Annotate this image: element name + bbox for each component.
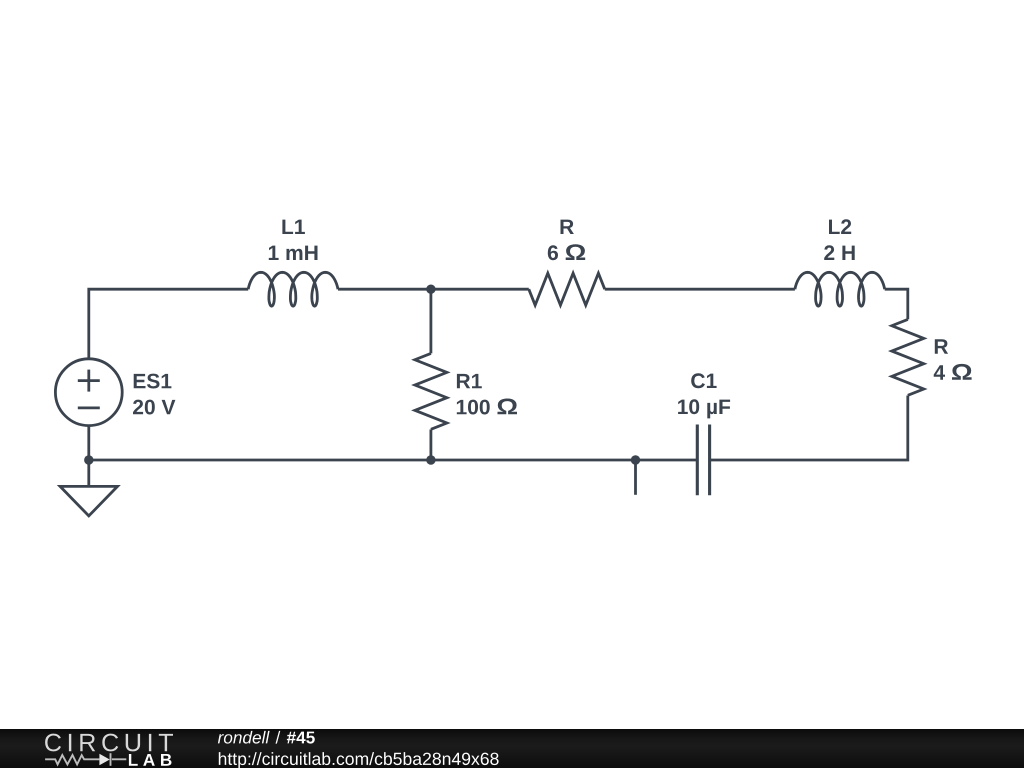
wire R1 to bottom wire <box>429 429 432 460</box>
label ES1 name <box>134 374 172 389</box>
inductor L2 <box>795 272 885 306</box>
label R (4 ohm) value <box>934 364 972 380</box>
wire source to ground <box>87 426 90 487</box>
node B junction dot at stub <box>631 455 640 464</box>
wire R to L2 <box>605 288 795 291</box>
junction dot at R1 bottom <box>426 455 435 464</box>
wire from source top-left corner to L1 <box>89 289 248 359</box>
wire node A down to R1 <box>429 289 432 353</box>
label R1 value <box>457 399 517 415</box>
label R (4 ohm) name <box>935 339 948 353</box>
label R1 name <box>457 374 482 388</box>
junction dot at source bottom <box>84 455 93 464</box>
capacitor C1 plates <box>697 425 709 496</box>
footer bar <box>0 729 1024 768</box>
resistor R 4 ohm <box>892 319 924 395</box>
logo resistor-diode glyph <box>45 753 126 766</box>
CircuitLab logo wordmark <box>45 734 173 752</box>
footer url <box>219 752 499 768</box>
logo LAB text <box>129 754 172 766</box>
voltage source ES1 <box>55 359 122 426</box>
label ES1 value <box>133 400 175 415</box>
label C1 name <box>691 373 716 388</box>
resistor R 6 ohm <box>529 273 605 305</box>
wire stub at node B <box>634 460 637 495</box>
wire L2 to top-right corner <box>885 289 908 319</box>
wire L1 to node A <box>338 288 431 291</box>
label L1 name <box>282 220 305 234</box>
label C1 value <box>678 399 730 418</box>
wire R4 to bottom-right corner to capacitor <box>710 395 908 460</box>
wire node A to R <box>431 288 529 291</box>
label R (6 ohm) value <box>548 244 585 260</box>
label R (6 ohm) name <box>561 220 574 234</box>
resistor R1 <box>415 353 447 429</box>
wire capacitor to bottom-left <box>89 459 698 462</box>
label L2 name <box>829 219 851 234</box>
ground <box>60 486 117 516</box>
footer author line: rondell / #45 <box>218 731 315 744</box>
inductor L1 <box>248 272 338 306</box>
node A junction dot <box>426 285 435 294</box>
label L2 value <box>824 245 855 260</box>
label L1 value <box>269 246 318 260</box>
